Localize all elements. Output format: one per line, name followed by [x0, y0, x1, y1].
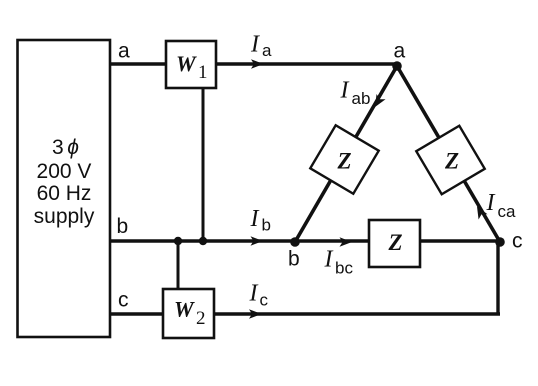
svg-text:c: c: [118, 289, 129, 312]
svg-text:I: I: [250, 32, 260, 58]
svg-text:Z: Z: [336, 149, 351, 174]
svg-text:I: I: [249, 281, 259, 307]
svg-text:200 V: 200 V: [37, 160, 92, 183]
svg-text:a: a: [118, 40, 130, 63]
svg-text:1: 1: [198, 62, 208, 83]
svg-text:I: I: [324, 247, 334, 273]
svg-text:ca: ca: [498, 202, 517, 221]
svg-text:ab: ab: [352, 89, 371, 108]
svg-text:b: b: [262, 216, 271, 235]
svg-text:I: I: [250, 206, 260, 232]
svg-text:Z: Z: [444, 149, 459, 174]
svg-text:W: W: [176, 51, 197, 76]
svg-text:W: W: [174, 297, 195, 322]
svg-text:Z: Z: [387, 230, 402, 255]
svg-text:bc: bc: [335, 259, 353, 278]
svg-text:b: b: [288, 248, 300, 271]
svg-text:c: c: [512, 230, 523, 253]
svg-text:a: a: [394, 40, 406, 63]
svg-text:supply: supply: [34, 205, 95, 228]
svg-text:I: I: [486, 190, 496, 216]
svg-text:c: c: [260, 291, 269, 310]
svg-text:60 Hz: 60 Hz: [37, 182, 92, 205]
svg-text:2: 2: [196, 308, 206, 329]
svg-text:I: I: [340, 78, 350, 104]
svg-text:b: b: [117, 215, 129, 238]
svg-text:a: a: [262, 41, 272, 60]
